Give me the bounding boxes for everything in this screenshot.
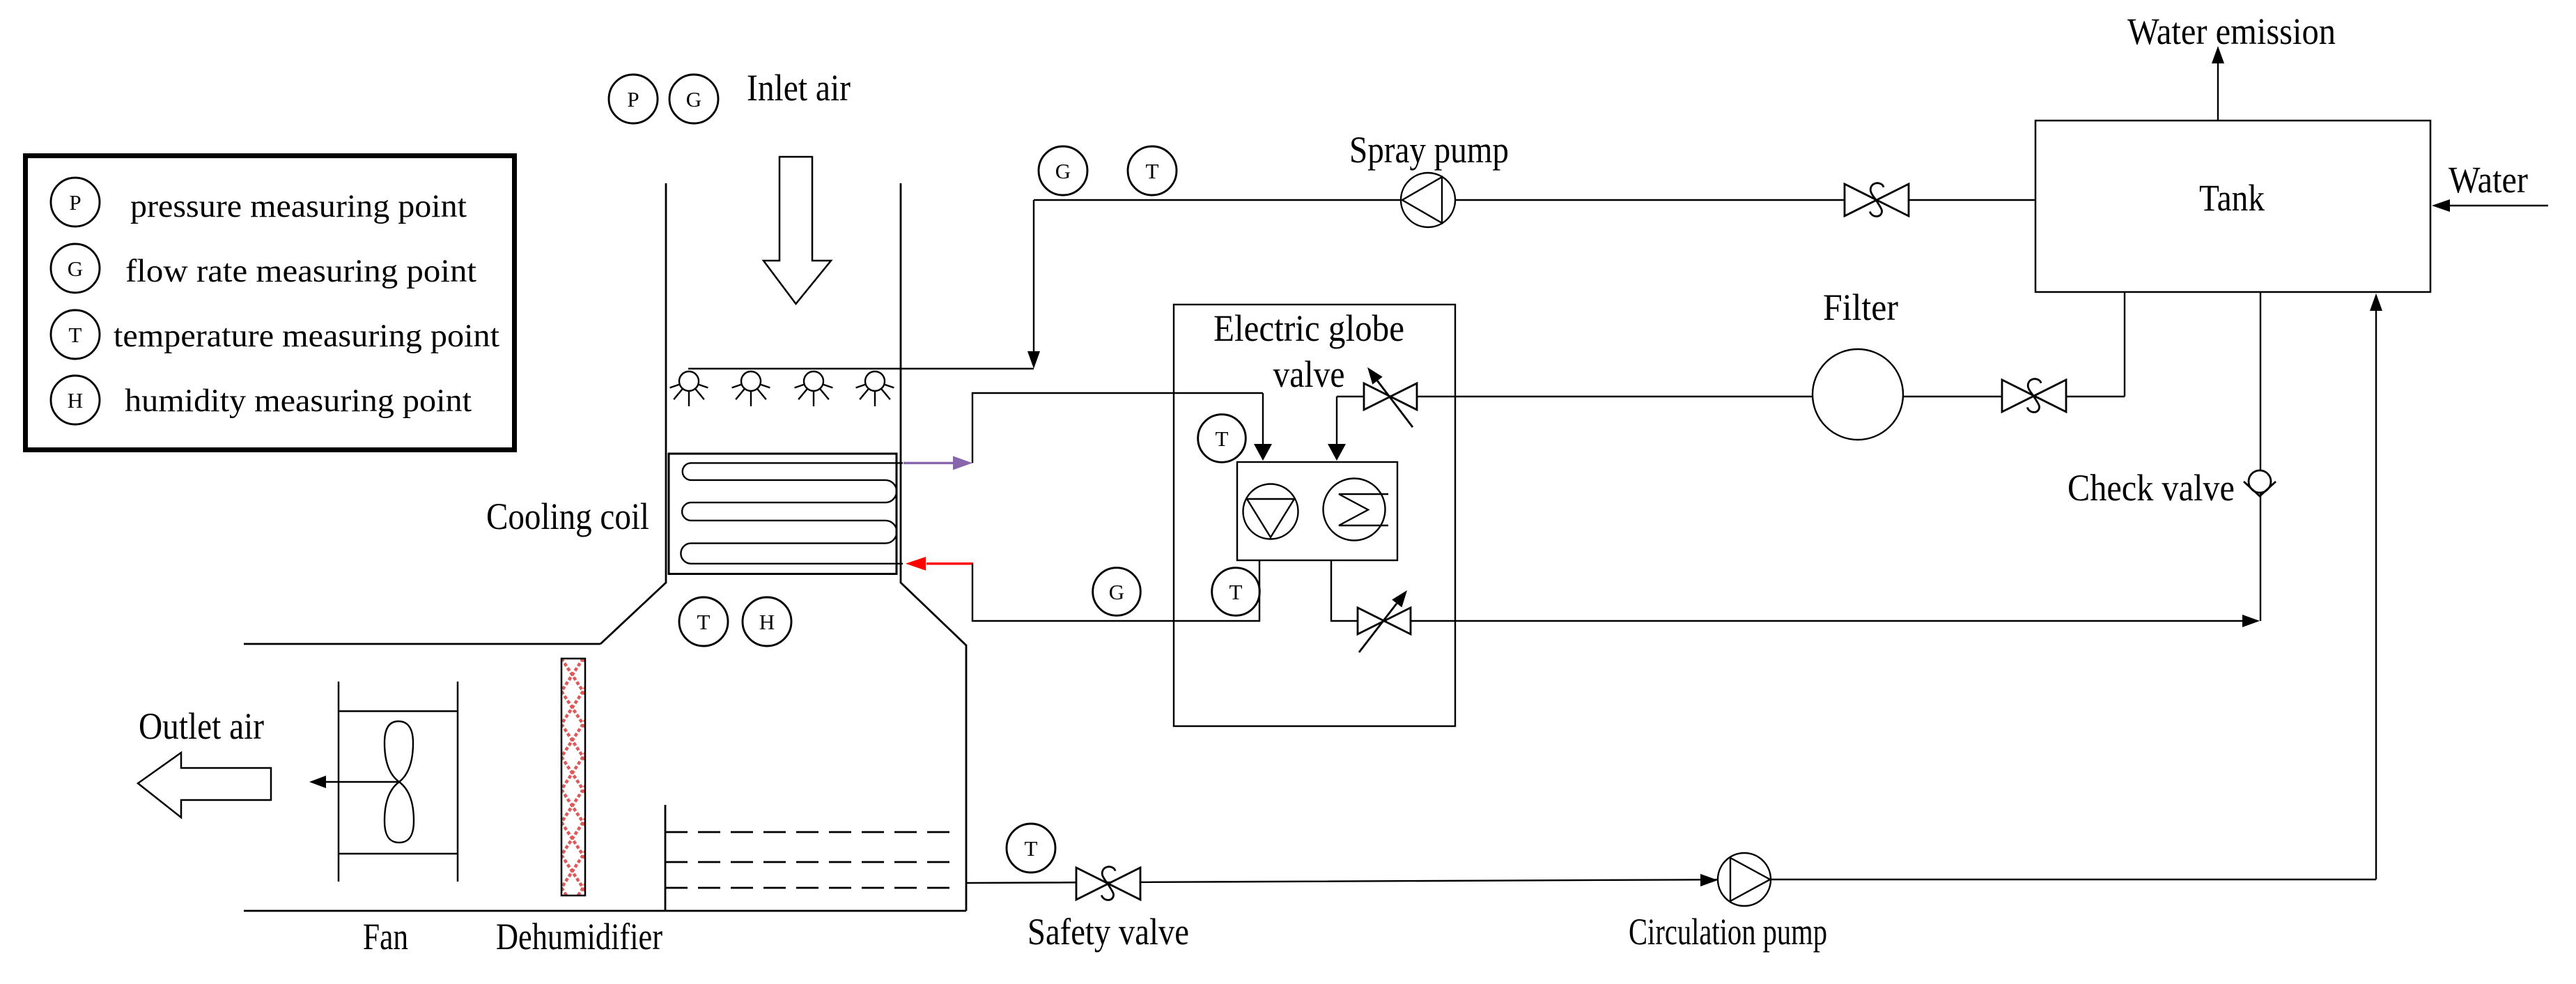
- spray header riser from pump line: [1033, 200, 1034, 353]
- svg-text:flow rate measuring point: flow rate measuring point: [125, 253, 476, 289]
- safety valve bowtie: [1076, 868, 1108, 900]
- top control valve bowtie: [1364, 383, 1390, 410]
- svg-text:G: G: [68, 256, 83, 281]
- electric globe valve outer box: [1174, 305, 1455, 726]
- svg-text:P: P: [627, 87, 639, 112]
- fan outlet arrow line: [325, 781, 399, 783]
- spray nozzle 1: [679, 371, 699, 391]
- svg-text:humidity measuring point: humidity measuring point: [125, 383, 472, 419]
- right branch pipe to filter and tank: [1337, 396, 2125, 397]
- safety valve S glyph: [1102, 867, 1116, 900]
- svg-text:Dehumidifier: Dehumidifier: [496, 916, 662, 958]
- svg-text:T: T: [69, 323, 82, 347]
- G bubble top: [669, 75, 718, 123]
- spray header pipe: [688, 368, 1034, 369]
- fan blade: [385, 721, 414, 843]
- svg-text:T: T: [1229, 580, 1243, 604]
- duct right wall: [901, 183, 966, 911]
- arrowhead into circulation pump: [1700, 874, 1718, 886]
- circulation pump: [1718, 853, 1771, 906]
- fan rails: [338, 682, 340, 882]
- svg-text:H: H: [759, 610, 775, 634]
- svg-text:T: T: [697, 610, 711, 634]
- top control valve stem arrow: [1377, 380, 1413, 427]
- tank feed valve S glyph: [1870, 183, 1884, 217]
- legend P bubble: [51, 178, 100, 226]
- spray pump symbol: [1401, 173, 1455, 227]
- svg-text:Outlet air: Outlet air: [139, 705, 264, 747]
- spray pump suction pipe: [1034, 199, 2035, 201]
- duct upper-left horizontal wall: [244, 643, 600, 645]
- cooling coil serpentine tube: [681, 463, 903, 563]
- water level dashed line 1: [665, 831, 956, 833]
- water level dashed line 2: [665, 861, 956, 863]
- svg-text:Fan: Fan: [363, 916, 408, 958]
- sump left wall: [665, 805, 667, 911]
- legend H bubble: [51, 376, 100, 424]
- red chilled water return arrow: [926, 562, 973, 564]
- svg-text:Spray pump: Spray pump: [1349, 129, 1509, 171]
- H bubble under coil: [743, 597, 791, 646]
- inlet air hollow arrow: [763, 157, 831, 304]
- water emission arrow: [2217, 63, 2219, 121]
- legend box: [26, 156, 515, 450]
- bottom control valve stem arrow: [1359, 604, 1397, 652]
- T bubble under coil: [679, 597, 728, 646]
- spray nozzle 2: [741, 371, 761, 391]
- svg-text:valve: valve: [1273, 353, 1345, 395]
- svg-text:Check valve: Check valve: [2067, 467, 2235, 509]
- left branch down into inner unit: [1262, 393, 1264, 445]
- check valve symbol: [2249, 470, 2271, 493]
- svg-text:H: H: [68, 388, 83, 413]
- svg-text:Water emission: Water emission: [2127, 10, 2336, 52]
- duct left wall: [600, 183, 666, 644]
- G bubble left of box: [1093, 568, 1141, 616]
- svg-text:G: G: [1109, 580, 1124, 604]
- inner electric globe valve unit box: [1237, 462, 1397, 560]
- tank: [2035, 121, 2430, 292]
- svg-text:T: T: [1025, 836, 1038, 861]
- svg-text:P: P: [69, 190, 81, 215]
- arrowhead down into spray header: [1027, 351, 1040, 369]
- svg-text:Electric globe: Electric globe: [1213, 307, 1404, 349]
- svg-text:Cooling coil: Cooling coil: [486, 495, 649, 537]
- svg-text:Inlet air: Inlet air: [747, 67, 851, 109]
- cooling coil box: [669, 454, 897, 574]
- svg-text:G: G: [686, 87, 701, 112]
- legend T bubble: [51, 310, 100, 359]
- inner unit outlet to bottom control valve and check riser: [1331, 560, 2253, 621]
- outlet air hollow arrow: [138, 753, 271, 817]
- svg-text:T: T: [1216, 426, 1229, 451]
- water level dashed line 3: [665, 887, 956, 889]
- legend G bubble: [51, 244, 100, 293]
- T bubble on pump line: [1128, 146, 1177, 195]
- svg-text:G: G: [1055, 159, 1071, 183]
- tank feed valve bowtie: [1845, 184, 1877, 216]
- filter outlet valve S glyph: [2028, 379, 2042, 413]
- duct bottom wall: [244, 910, 966, 912]
- svg-text:Safety valve: Safety valve: [1027, 911, 1189, 953]
- spray nozzle 3: [804, 371, 823, 391]
- check valve riser: [2260, 291, 2261, 621]
- dehumidifier screen: [561, 659, 585, 895]
- svg-text:Tank: Tank: [2199, 177, 2265, 219]
- G bubble on pump line: [1039, 146, 1087, 195]
- T bubble upper in box: [1198, 415, 1246, 463]
- inner unit sigma circle: [1324, 479, 1386, 541]
- pipe from inner unit to red arrow: [972, 560, 1259, 621]
- svg-text:Water: Water: [2449, 159, 2528, 201]
- T bubble lower in box: [1212, 568, 1260, 616]
- svg-text:Filter: Filter: [1823, 286, 1898, 328]
- svg-text:T: T: [1146, 159, 1159, 183]
- spray nozzle 4: [865, 371, 885, 391]
- bottom pipe from duct to circulation pump to tank riser: [966, 879, 2376, 883]
- svg-text:Circulation pump: Circulation pump: [1629, 911, 1827, 953]
- water inlet arrow: [2450, 205, 2548, 206]
- svg-text:pressure measuring point: pressure measuring point: [130, 188, 467, 224]
- inner unit pump circle: [1243, 484, 1298, 539]
- T bubble at safety valve: [1007, 824, 1055, 872]
- pipe riser from purple arrow to globe valve box: [972, 393, 1263, 463]
- purple chilled water out arrow: [903, 462, 954, 464]
- filter circle: [1813, 349, 1903, 440]
- bottom control valve bowtie: [1358, 608, 1384, 634]
- return riser to tank: [2375, 311, 2377, 879]
- riser from filter valve to tank bottom: [2124, 291, 2125, 397]
- P bubble top: [609, 75, 658, 123]
- svg-text:temperature measuring point: temperature measuring point: [114, 318, 499, 354]
- filter outlet valve bowtie: [2002, 380, 2034, 412]
